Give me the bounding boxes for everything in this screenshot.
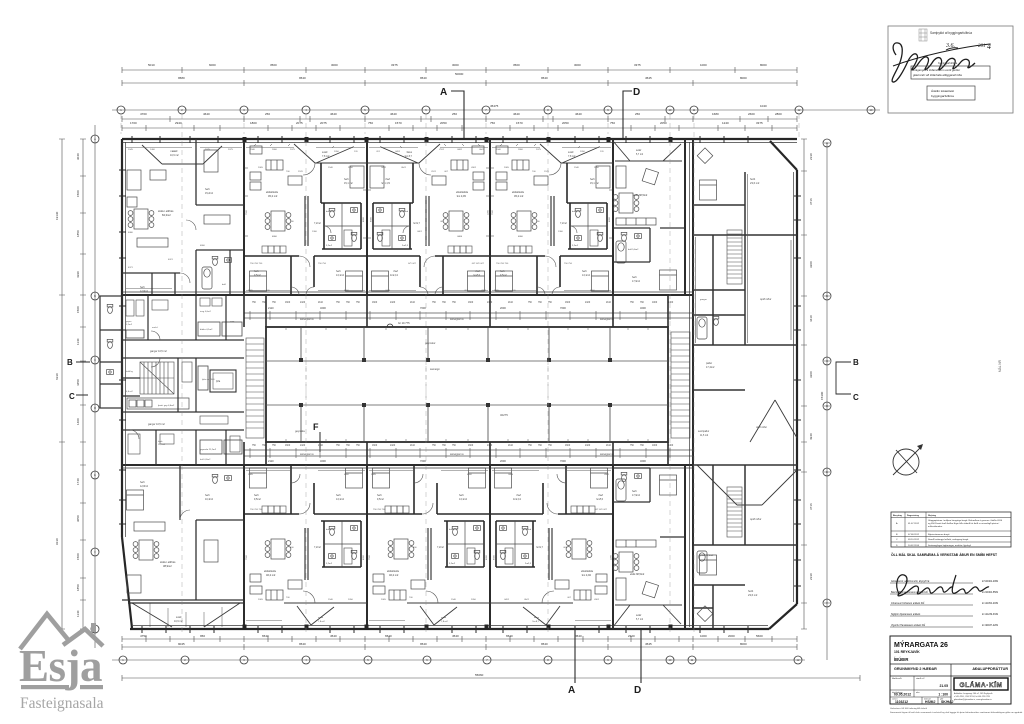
svg-text:4540: 4540 — [452, 634, 459, 638]
svg-text:2110: 2110 — [606, 445, 612, 447]
top grid circles — [117, 106, 875, 114]
svg-text:AÐALUPPDRÁTTUR: AÐALUPPDRÁTTUR — [972, 666, 1008, 671]
svg-text:1600: 1600 — [565, 445, 571, 447]
svg-text:750: 750 — [610, 121, 615, 125]
svg-text:SK/HAJ: SK/HAJ — [941, 700, 954, 704]
svg-text:herb: herb — [205, 188, 210, 191]
dim row 2 overall — [122, 82, 797, 84]
svg-text:Sigbjörn Kjartansson arkitekt: Sigbjörn Kjartansson arkitekt — [891, 613, 921, 616]
svg-text:sameignar sv.: sameignar sv. — [300, 453, 315, 456]
svg-text:10,9 m2: 10,9 m2 — [170, 154, 179, 157]
svg-text:6000: 6000 — [209, 63, 216, 67]
svg-text:eldst 38,5m2: eldst 38,5m2 — [630, 573, 645, 576]
svg-text:herb: herb — [632, 276, 637, 279]
stair strips beside courtyard — [246, 332, 690, 438]
bottom apartments top wall — [122, 464, 693, 466]
left wall — [121, 139, 123, 537]
svg-text:pallur 17,4m2: pallur 17,4m2 — [700, 554, 714, 557]
svg-text:2050: 2050 — [660, 121, 667, 125]
svg-text:2420: 2420 — [585, 302, 591, 304]
svg-text:17,4m2: 17,4m2 — [706, 366, 715, 369]
grid circle line — [112, 109, 880, 111]
svg-text:2110: 2110 — [268, 306, 274, 310]
letter F middle — [313, 422, 320, 452]
svg-text:6540: 6540 — [262, 634, 269, 638]
svg-text:3000: 3000 — [331, 63, 338, 67]
svg-text:01.07.2012: 01.07.2012 — [908, 523, 920, 525]
svg-text:1850: 1850 — [76, 230, 80, 237]
svg-text:Arkitektar Laugavegi 164 s/f,: Arkitektar Laugavegi 164 s/f, 105 Reykja… — [954, 692, 992, 695]
svg-text:herb: herb — [140, 481, 145, 484]
svg-text:3500: 3500 — [513, 63, 520, 67]
svg-text:10,4m2: 10,4m2 — [205, 498, 214, 501]
svg-text:9540: 9540 — [541, 642, 548, 646]
svg-text:byggingarfulltrúa: byggingarfulltrúa — [931, 94, 954, 98]
stairs top — [727, 230, 742, 284]
svg-text:Skýring: Skýring — [928, 515, 937, 517]
svg-text:inng 4,6m2: inng 4,6m2 — [200, 311, 212, 313]
bath — [697, 317, 707, 339]
svg-text:s 545 4700, f 562 3744, kt: s 545 4700, f 562 3744, kt 640 476 0759 — [954, 695, 991, 698]
svg-text:geymsla 21,2m2: geymsla 21,2m2 — [200, 449, 217, 451]
svg-text:2075: 2075 — [320, 121, 327, 125]
gallery partition stubs — [244, 295, 668, 465]
svg-text:9580: 9580 — [178, 76, 185, 80]
svg-text:5,7 m2: 5,7 m2 — [636, 154, 644, 156]
svg-text:1570: 1570 — [516, 121, 523, 125]
svg-text:Samþykkt af byggingarfulltrúa: Samþykkt af byggingarfulltrúa — [930, 31, 972, 35]
svg-text:9045: 9045 — [178, 642, 185, 646]
svg-text:1103212: 1103212 — [895, 700, 908, 704]
section letter D top — [623, 87, 640, 139]
svg-text:1040: 1040 — [760, 104, 767, 108]
svg-text:1600: 1600 — [285, 445, 291, 447]
svg-text:15,2m2: 15,2m2 — [205, 192, 214, 195]
svg-text:2420: 2420 — [300, 302, 306, 304]
svg-text:4640: 4640 — [513, 112, 520, 116]
svg-text:glænnrah við lóðarhafa aðliggj: glænnrah við lóðarhafa aðliggjandi lóða — [913, 73, 962, 77]
svg-text:2940: 2940 — [175, 121, 182, 125]
svg-text:1240: 1240 — [722, 121, 729, 125]
svg-text:2420: 2420 — [390, 302, 396, 304]
svg-text:07.08.2012: 07.08.2012 — [908, 534, 920, 536]
svg-text:2110: 2110 — [318, 445, 324, 447]
top dim numbers — [130, 63, 782, 125]
svg-text:11,7m2: 11,7m2 — [158, 444, 166, 446]
svg-text:8000: 8000 — [740, 76, 747, 80]
svg-text:6540: 6540 — [385, 634, 392, 638]
svg-text:09.05.2012: 09.05.2012 — [894, 693, 911, 697]
svg-text:6080: 6080 — [128, 232, 134, 234]
svg-text:4760: 4760 — [140, 112, 147, 116]
svg-text:B: B — [853, 358, 859, 367]
svg-text:C: C — [853, 393, 859, 402]
party walls top row — [243, 139, 245, 295]
svg-text:4410: 4410 — [809, 315, 813, 322]
svg-text:3375: 3375 — [634, 63, 641, 67]
emblem — [919, 29, 927, 41]
svg-text:and.d: and.d — [152, 327, 158, 329]
svg-text:3200: 3200 — [320, 459, 326, 463]
svg-text:stofa í eldhús: stofa í eldhús — [160, 560, 176, 564]
svg-text:geym: geym — [126, 321, 132, 323]
svg-text:Samræmist lögum öll mál skulu: Samræmist lögum öll mál skulu samræmd á … — [890, 711, 1023, 714]
svg-text:Rýmisnúmerum breytt: Rýmisnúmerum breytt — [928, 533, 950, 536]
svg-text:svalir: svalir — [636, 149, 642, 152]
svg-text:11,5 m2: 11,5 m2 — [700, 435, 709, 437]
svg-text:8000: 8000 — [760, 63, 767, 67]
svg-text:2110: 2110 — [318, 302, 324, 304]
svg-text:1600: 1600 — [468, 302, 474, 304]
svg-text:5600: 5600 — [756, 634, 763, 638]
furniture apt1 — [127, 150, 230, 247]
svg-text:C: C — [69, 392, 75, 401]
svg-text:pallur: pallur — [706, 362, 712, 365]
place bottom modules — [244, 465, 367, 625]
dim row 1 — [122, 69, 797, 71]
svg-text:1500: 1500 — [76, 553, 80, 560]
svg-text:15300: 15300 — [820, 391, 824, 400]
svg-text:Frágangur á lóðamörkum verði: Frágangur á lóðamörkum verði gerður — [913, 68, 961, 72]
section letter A bottom — [568, 630, 575, 696]
svg-text:kt 121054-2039: kt 121054-2039 — [982, 602, 999, 605]
svg-text:herb: herb — [140, 286, 145, 289]
svg-text:3,1m2: 3,1m2 — [126, 324, 133, 326]
svg-text:7600: 7600 — [560, 306, 566, 310]
svg-text:svefnpallur: svefnpallur — [698, 430, 709, 433]
svg-text:GRUNNMYND 2 HÆÐAR: GRUNNMYND 2 HÆÐAR — [894, 667, 937, 671]
svg-text:7600: 7600 — [420, 459, 426, 463]
box 1 — [911, 66, 990, 79]
svg-text:lyfta: lyfta — [216, 380, 221, 383]
svg-text:1850: 1850 — [76, 584, 80, 591]
svg-text:2000: 2000 — [500, 459, 506, 463]
svg-text:Áskilin lokaúttekt: Áskilin lokaúttekt — [931, 89, 954, 93]
svg-text:bútfur 4,1m2: bútfur 4,1m2 — [200, 328, 213, 331]
svg-text:1000: 1000 — [700, 634, 707, 638]
svg-text:D: D — [634, 685, 641, 696]
svg-text:gangur 10,5 m2: gangur 10,5 m2 — [148, 423, 165, 426]
svg-text:1140: 1140 — [76, 610, 80, 617]
svg-text:2330: 2330 — [809, 153, 813, 160]
inner thin parallels — [696, 174, 792, 343]
svg-text:23,6 m2: 23,6 m2 — [748, 593, 758, 597]
svg-text:1400: 1400 — [668, 302, 674, 304]
svg-text:23,6 m2: 23,6 m2 — [750, 181, 760, 185]
svg-text:svalir: svalir — [636, 614, 642, 617]
svg-text:Dagsetning: Dagsetning — [907, 514, 920, 517]
svg-text:A: A — [440, 87, 447, 98]
svg-text:Verknúmer GK 446 teikning A3 ú: Verknúmer GK 446 teikning A3 útskrift — [890, 707, 927, 710]
svg-text:6330: 6330 — [55, 373, 59, 380]
svg-text:2110: 2110 — [606, 302, 612, 304]
svg-text:101 REYKJAVÍK: 101 REYKJAVÍK — [894, 649, 920, 654]
GLAMA KIM logo — [954, 678, 1008, 690]
svg-text:1400: 1400 — [668, 445, 674, 447]
svg-text:3375: 3375 — [391, 63, 398, 67]
svg-text:4: 4 — [987, 42, 991, 51]
svg-text:lyfta op 2500: lyfta op 2500 — [202, 378, 215, 381]
svg-text:7600: 7600 — [420, 306, 426, 310]
svg-text:1570: 1570 — [395, 121, 402, 125]
letters B C right — [836, 358, 859, 402]
big middle void — [697, 465, 797, 505]
per-module rows — [122, 118, 797, 120]
svg-text:1400: 1400 — [150, 149, 156, 151]
box 2 — [927, 86, 975, 100]
svg-text:2050: 2050 — [440, 121, 447, 125]
svg-text:1500: 1500 — [76, 190, 80, 197]
svg-text:sameignar sv.: sameignar sv. — [450, 453, 465, 456]
svg-text:F: F — [313, 422, 319, 432]
svg-text:2110: 2110 — [410, 445, 416, 447]
svg-text:2000: 2000 — [728, 634, 735, 638]
svg-text:4021: 4021 — [168, 259, 174, 261]
svg-text:3500: 3500 — [270, 63, 277, 67]
svg-text:Gr 10.775: Gr 10.775 — [398, 321, 410, 325]
svg-text:MÝRARGATA 26: MÝRARGATA 26 — [894, 640, 948, 649]
svg-text:kt 121239-3349: kt 121239-3349 — [982, 613, 999, 616]
svg-text:herb: herb — [158, 440, 163, 443]
svg-text:9540: 9540 — [420, 76, 427, 80]
svg-text:84,3m2: 84,3m2 — [162, 213, 171, 217]
svg-text:950: 950 — [200, 634, 205, 638]
svg-text:byggingarfulltrúa: byggingarfulltrúa — [938, 61, 958, 65]
svg-text:1800: 1800 — [250, 121, 257, 125]
gallery strip lines — [244, 313, 693, 456]
svg-text:750: 750 — [490, 121, 495, 125]
svg-text:17,9m2: 17,9m2 — [632, 494, 641, 497]
svg-text:eldst 38,5m2: eldst 38,5m2 — [633, 194, 648, 197]
svg-text:6540: 6540 — [506, 634, 513, 638]
svg-text:sameign: sameign — [430, 367, 440, 371]
svg-text:herb: herb — [748, 589, 754, 593]
svg-text:4640: 4640 — [203, 112, 210, 116]
svg-text:1570: 1570 — [170, 151, 176, 153]
svg-text:9540: 9540 — [299, 76, 306, 80]
svg-text:Gluggapóstum í miðjum hringsti: Gluggapóstum í miðjum hringstiga breytt.… — [928, 519, 1003, 522]
svg-text:Breyting: Breyting — [893, 514, 903, 517]
svg-text:3000: 3000 — [452, 63, 459, 67]
svg-text:32275: 32275 — [500, 413, 508, 417]
svg-text:kt 220464-5509: kt 220464-5509 — [982, 591, 999, 594]
svg-text:3200: 3200 — [640, 459, 646, 463]
svg-text:4545: 4545 — [645, 76, 652, 80]
svg-text:sameignar sv.: sameignar sv. — [450, 318, 465, 321]
svg-text:4540: 4540 — [330, 634, 337, 638]
svg-text:1600: 1600 — [468, 445, 474, 447]
svg-text:Fasteignasala: Fasteignasala — [20, 695, 104, 712]
svg-text:kt 540402-2099: kt 540402-2099 — [982, 580, 999, 583]
svg-text:1740: 1740 — [76, 478, 80, 485]
signature scrawl — [892, 43, 975, 82]
svg-text:bað 5,6m2: bað 5,6m2 — [628, 248, 639, 251]
svg-text:17,9m2: 17,9m2 — [632, 280, 641, 283]
svg-text:herb: herb — [632, 490, 637, 493]
svg-text:2330: 2330 — [809, 573, 813, 580]
svg-text:Vigurður Hanaksason arkitekt F: Vigurður Hanaksason arkitekt FAÍ — [891, 624, 926, 627]
door arcs — [130, 220, 196, 520]
svg-text:5010: 5010 — [148, 63, 155, 67]
svg-text:4750: 4750 — [140, 634, 147, 638]
svg-text:1140: 1140 — [76, 338, 80, 345]
stairs bottom — [727, 487, 742, 537]
svg-text:3200: 3200 — [809, 371, 813, 378]
svg-text:2420: 2420 — [300, 445, 306, 447]
svg-text:stærð m2: stærð m2 — [916, 677, 925, 680]
svg-text:MÁL NR: MÁL NR — [998, 359, 1002, 372]
svg-text:A: A — [568, 685, 575, 696]
svg-text:bað 4,8m2: bað 4,8m2 — [200, 458, 211, 461]
svg-text:sameignar sv.: sameignar sv. — [300, 318, 315, 321]
svg-text:B: B — [67, 358, 73, 367]
svg-text:1400: 1400 — [76, 418, 80, 425]
svg-text:3040: 3040 — [76, 153, 80, 160]
svg-text:og 0501 breitt hæð íbúðar Eig: og 0501 breitt hæð íbúðar Eigin lóðu útf… — [928, 522, 1000, 525]
top-right chamfer — [770, 141, 797, 170]
svg-text:9130: 9130 — [55, 538, 59, 545]
letters B C left — [67, 358, 90, 401]
svg-text:1600: 1600 — [372, 302, 378, 304]
small rooms around middle — [126, 322, 242, 454]
svg-text:8000: 8000 — [740, 642, 747, 646]
svg-text:4940: 4940 — [809, 433, 813, 440]
svg-text:herb: herb — [750, 177, 756, 181]
svg-text:50000: 50000 — [455, 72, 464, 76]
party walls bottom row — [243, 465, 245, 629]
svg-text:3375: 3375 — [756, 121, 763, 125]
svg-text:4371: 4371 — [128, 267, 134, 269]
svg-text:3716: 3716 — [809, 503, 813, 510]
bottom-left diagonal — [122, 537, 132, 628]
svg-text:2420: 2420 — [585, 445, 591, 447]
svg-text:55060: 55060 — [475, 673, 484, 677]
svg-text:19130: 19130 — [55, 211, 59, 220]
right wing boundary — [692, 139, 694, 629]
svg-text:4800: 4800 — [200, 245, 206, 247]
svg-text:250: 250 — [635, 112, 640, 116]
svg-text:2075: 2075 — [228, 149, 234, 151]
svg-text:09.10.2012: 09.10.2012 — [908, 539, 920, 541]
top wall — [122, 138, 797, 140]
svg-text:3000: 3000 — [574, 63, 581, 67]
svg-text:kaffi kg: kaffi kg — [126, 371, 134, 373]
stairs — [140, 362, 174, 394]
svg-text:2110: 2110 — [508, 445, 514, 447]
bottom rooms — [700, 555, 717, 575]
window mullion ticks on top/bottom walls — [119, 136, 801, 633]
top balcony diagonals — [142, 145, 222, 164]
svg-text:gangur 10,5 m2: gangur 10,5 m2 — [150, 350, 167, 353]
terrace diagonals bottom — [132, 603, 240, 627]
svg-text:2000: 2000 — [500, 306, 506, 310]
svg-text:svalir: svalir — [176, 616, 182, 619]
svg-text:1600: 1600 — [372, 445, 378, 447]
svg-text:2110: 2110 — [410, 302, 416, 304]
svg-text:12,8m2: 12,8m2 — [140, 485, 149, 488]
svg-text:Jóhannes Þórðarson arkitekt FA: Jóhannes Þórðarson arkitekt FAÍ — [891, 602, 925, 605]
svg-text:Smávægilegar lagfæringar, merk: Smávægilegar lagfæringar, merklar- lýjur… — [928, 544, 971, 547]
gallery ticks and numbers — [250, 311, 670, 458]
svg-text:2800: 2800 — [775, 112, 782, 116]
svg-text:geymsla: geymsla — [295, 429, 305, 433]
svg-text:2420: 2420 — [390, 445, 396, 447]
svg-text:4540: 4540 — [575, 634, 582, 638]
svg-text:1500: 1500 — [76, 306, 80, 313]
svg-text:4,6 m2: 4,6 m2 — [126, 391, 133, 393]
svg-text:9540: 9540 — [420, 642, 427, 646]
grid circle digits — [94, 108, 873, 662]
top room — [697, 148, 713, 164]
svg-text:4450: 4450 — [76, 379, 80, 386]
svg-text:mkv: mkv — [916, 692, 920, 694]
svg-text:7600: 7600 — [560, 459, 566, 463]
svg-text:miðsvölunalna.: miðsvölunalna. — [928, 525, 943, 528]
top apartments bottom wall — [122, 294, 693, 296]
lift — [210, 370, 236, 392]
annex left — [100, 296, 122, 408]
svg-text:4545: 4545 — [645, 642, 652, 646]
svg-text:1700: 1700 — [130, 121, 137, 125]
svg-text:ÖLL MÁL SKAL SAMRÆMA Á VERKSTA: ÖLL MÁL SKAL SAMRÆMA Á VERKSTAÐ ÁÐUR EN … — [891, 552, 998, 557]
svg-text:4640: 4640 — [330, 112, 337, 116]
svg-text:2050: 2050 — [562, 121, 569, 125]
svg-text:1 :100: 1 :100 — [938, 693, 948, 697]
svg-text:ÍBÚÐIR: ÍBÚÐIR — [894, 657, 908, 662]
svg-text:4640: 4640 — [390, 112, 397, 116]
svg-text:2045: 2045 — [128, 149, 134, 151]
svg-text:Mælikvarði: Mælikvarði — [892, 677, 902, 680]
svg-text:2110: 2110 — [508, 302, 514, 304]
svg-text:kt 190037-2209: kt 190037-2209 — [982, 624, 999, 627]
bottom apartment — [133, 540, 159, 560]
svg-text:þvott. gey 4,6m2: þvott. gey 4,6m2 — [158, 404, 175, 407]
section letter A top — [440, 87, 464, 139]
bottom narrow — [613, 468, 685, 537]
svg-text:1600: 1600 — [565, 302, 571, 304]
svg-text:12,8m2: 12,8m2 — [140, 290, 149, 293]
pier blocks along outer walls — [243, 137, 673, 630]
svg-text:3200: 3200 — [640, 306, 646, 310]
faint vertical grid dashes through plan — [121, 114, 799, 634]
svg-text:Esja: Esja — [19, 641, 102, 691]
left cells — [913, 676, 915, 690]
bottom-right chamfer — [769, 604, 797, 629]
place top modules — [244, 144, 367, 295]
svg-text:2075: 2075 — [205, 149, 211, 151]
svg-text:3716: 3716 — [809, 198, 813, 205]
svg-text:5,7 m2: 5,7 m2 — [636, 619, 644, 621]
svg-text:1680: 1680 — [712, 112, 719, 116]
svg-text:Stærð herbergja leiðrétt, sval: Stærð herbergja leiðrétt, svalagang brey… — [928, 538, 969, 541]
svg-text:4640: 4640 — [575, 112, 582, 116]
bottom wall — [130, 628, 769, 630]
section letter D bottom — [634, 630, 641, 696]
svg-text:GLÁMA·KÍM: GLÁMA·KÍM — [960, 680, 1003, 689]
svg-text:1000: 1000 — [700, 63, 707, 67]
svg-text:3050: 3050 — [76, 515, 80, 522]
laundry room strip — [127, 398, 189, 409]
svg-text:2600: 2600 — [748, 112, 755, 116]
svg-text:2320: 2320 — [628, 634, 635, 638]
svg-text:3200: 3200 — [809, 261, 813, 268]
svg-text:herb: herb — [205, 494, 210, 497]
right wall — [796, 170, 798, 604]
svg-text:geymslur: geymslur — [425, 341, 436, 345]
svg-text:D: D — [633, 87, 640, 98]
top narrow — [613, 141, 682, 161]
extra middle partitions — [122, 296, 226, 465]
